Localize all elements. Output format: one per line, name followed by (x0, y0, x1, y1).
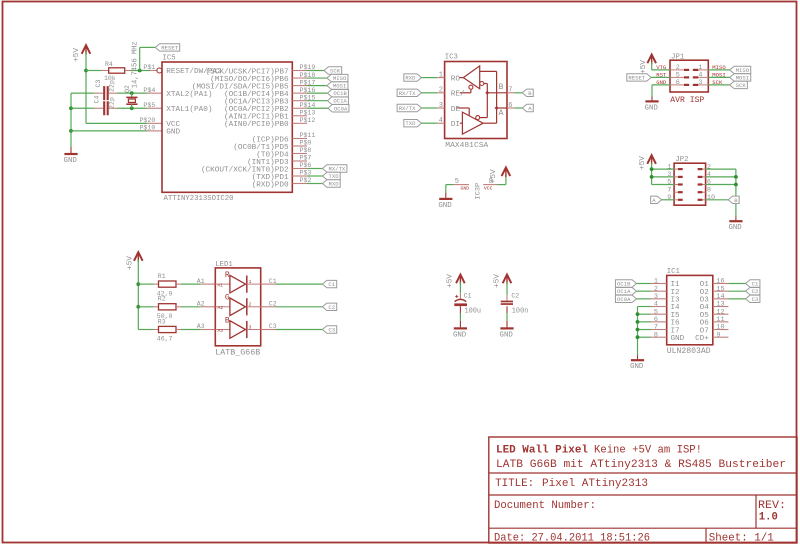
svg-text:R2: R2 (158, 296, 166, 303)
svg-text:MOSI: MOSI (736, 74, 749, 81)
svg-text:GND: GND (645, 104, 659, 112)
svg-text:(RXD)PD0: (RXD)PD0 (252, 181, 289, 189)
svg-text:VCC: VCC (484, 185, 493, 191)
svg-text:RESET: RESET (161, 44, 178, 51)
svg-text:C1: C1 (464, 293, 472, 300)
svg-text:G: G (225, 294, 230, 303)
svg-text:C4: C4 (94, 96, 101, 104)
svg-text:100n: 100n (512, 308, 529, 316)
svg-text:OC1B: OC1B (333, 90, 347, 97)
svg-text:GND: GND (166, 129, 180, 137)
svg-text:Keine +5V am ISP!: Keine +5V am ISP! (594, 444, 702, 456)
svg-text:DI: DI (451, 121, 460, 129)
svg-text:14,7456 MHz: 14,7456 MHz (131, 41, 139, 88)
svg-text:OC1A: OC1A (333, 98, 347, 105)
svg-text:P$11: P$11 (300, 132, 316, 139)
svg-text:C2: C2 (752, 288, 759, 295)
svg-text:LED1: LED1 (215, 261, 233, 269)
svg-text:C3: C3 (752, 296, 759, 303)
svg-text:C1: C1 (328, 281, 335, 288)
svg-text:P$20: P$20 (139, 117, 155, 124)
svg-text:10: 10 (707, 194, 715, 202)
svg-text:SCK: SCK (330, 68, 341, 75)
svg-text:MISO: MISO (333, 75, 347, 82)
svg-text:+5V: +5V (127, 255, 135, 270)
svg-text:IC1: IC1 (667, 268, 681, 276)
svg-text:P$13: P$13 (300, 110, 316, 117)
svg-text:1.0: 1.0 (759, 512, 778, 524)
svg-text:C3: C3 (328, 327, 335, 334)
svg-text:P$4: P$4 (143, 87, 155, 94)
svg-text:IC3: IC3 (445, 54, 458, 62)
svg-text:7: 7 (508, 87, 512, 95)
svg-text:9: 9 (716, 331, 720, 339)
svg-text:GND: GND (728, 224, 742, 232)
svg-text:RX/TX: RX/TX (399, 105, 416, 112)
svg-text:OC1A: OC1A (617, 288, 631, 295)
svg-text:A: A (499, 109, 504, 118)
svg-text:+5V: +5V (73, 47, 81, 62)
svg-text:LED Wall Pixel: LED Wall Pixel (496, 444, 588, 456)
svg-text:A2: A2 (218, 305, 224, 311)
svg-text:OC0A: OC0A (334, 105, 348, 112)
svg-text:JP1: JP1 (671, 53, 685, 61)
svg-text:Document Number:: Document Number: (494, 500, 596, 512)
svg-text:+5V: +5V (640, 59, 648, 74)
svg-text:GND: GND (64, 157, 78, 165)
svg-text:Date: 27.04.2011 18:51:26: Date: 27.04.2011 18:51:26 (494, 533, 650, 545)
svg-text:JP2: JP2 (675, 156, 688, 164)
svg-text:DE: DE (451, 106, 461, 114)
svg-text:ATTINY2313SOIC20: ATTINY2313SOIC20 (164, 195, 234, 203)
svg-text:1: 1 (249, 279, 252, 285)
svg-text:IC5: IC5 (163, 54, 176, 62)
svg-text:RX/TX: RX/TX (329, 166, 346, 173)
svg-text:4: 4 (439, 117, 443, 125)
svg-text:TXD: TXD (329, 173, 340, 180)
svg-text:MAX481CSA: MAX481CSA (445, 142, 488, 150)
svg-text:RO: RO (451, 75, 461, 83)
svg-text:+5V: +5V (447, 273, 455, 288)
svg-text:P$8: P$8 (300, 147, 312, 154)
svg-text:MOSI: MOSI (333, 83, 346, 90)
svg-text:A3: A3 (218, 328, 224, 334)
svg-text:GND: GND (630, 363, 644, 371)
svg-text:Sheet: 1/1: Sheet: 1/1 (709, 533, 774, 545)
svg-text:GND: GND (671, 335, 685, 343)
svg-text:RXD: RXD (405, 75, 416, 82)
svg-text:+5V: +5V (490, 169, 498, 184)
svg-text:TITLE:: TITLE: (495, 478, 534, 490)
svg-text:P$9: P$9 (300, 140, 312, 147)
svg-text:OC0A: OC0A (617, 296, 631, 303)
svg-text:8: 8 (654, 331, 658, 339)
svg-text:Q2: Q2 (124, 85, 131, 93)
svg-text:A2: A2 (197, 301, 205, 308)
svg-text:R4: R4 (105, 61, 113, 68)
svg-text:C2: C2 (511, 293, 519, 300)
svg-text:3: 3 (698, 79, 702, 87)
svg-text:RXD: RXD (329, 181, 340, 188)
svg-text:9: 9 (667, 194, 671, 202)
svg-text:MISO: MISO (736, 67, 750, 74)
svg-text:2: 2 (707, 163, 711, 171)
svg-text:+5V: +5V (639, 155, 647, 170)
svg-text:IC3P: IC3P (474, 183, 482, 200)
svg-text:1: 1 (439, 72, 443, 80)
svg-text:Pixel ATtiny2313: Pixel ATtiny2313 (542, 478, 648, 490)
svg-text:REV:: REV: (758, 500, 786, 512)
svg-text:TXD: TXD (405, 120, 416, 127)
svg-text:6: 6 (676, 79, 680, 87)
svg-text:XTAL1(PA0): XTAL1(PA0) (166, 106, 212, 114)
svg-text:+5V: +5V (494, 273, 502, 288)
svg-text:SCK: SCK (736, 82, 747, 89)
svg-text:GND: GND (453, 331, 467, 339)
svg-text:P$1: P$1 (143, 64, 155, 71)
svg-text:2: 2 (439, 87, 443, 95)
svg-text:1: 1 (667, 163, 671, 171)
svg-text:5: 5 (455, 178, 459, 186)
svg-text:3: 3 (249, 324, 252, 330)
svg-text:3: 3 (439, 102, 443, 110)
svg-text:6: 6 (508, 102, 512, 110)
svg-text:A1: A1 (218, 283, 224, 289)
svg-text:OC1B: OC1B (617, 281, 631, 288)
svg-text:C3: C3 (95, 80, 102, 88)
svg-text:XTAL2(PA1): XTAL2(PA1) (166, 91, 212, 99)
svg-text:22p: 22p (109, 80, 116, 92)
svg-text:22p: 22p (109, 97, 116, 109)
svg-text:A3: A3 (197, 323, 205, 330)
svg-text:C2: C2 (328, 304, 335, 311)
svg-text:P$7: P$7 (300, 155, 312, 162)
svg-text:ULN2803AD: ULN2803AD (667, 347, 711, 356)
svg-text:AVR ISP: AVR ISP (670, 96, 704, 105)
svg-text:P$12: P$12 (300, 117, 316, 124)
svg-text:CD+: CD+ (695, 335, 709, 343)
svg-text:GND: GND (500, 331, 514, 339)
svg-text:R3: R3 (158, 318, 166, 325)
svg-text:GND: GND (438, 202, 452, 210)
svg-text:100u: 100u (465, 308, 482, 316)
svg-text:2: 2 (249, 302, 252, 308)
svg-text:B: B (225, 316, 230, 325)
svg-text:LATB G66B mit ATtiny2313 & RS4: LATB G66B mit ATtiny2313 & RS485 Bustrei… (496, 459, 786, 471)
svg-text:P$10: P$10 (139, 125, 155, 132)
svg-text:B: B (499, 83, 504, 92)
svg-text:P$5: P$5 (143, 102, 155, 109)
svg-text:GND: GND (461, 185, 470, 191)
svg-text:(AIN0/PCI0)PB0: (AIN0/PCI0)PB0 (224, 121, 289, 129)
svg-text:46,7: 46,7 (157, 336, 173, 343)
svg-text:RX/TX: RX/TX (399, 90, 416, 97)
svg-text:LATB_G66B: LATB_G66B (215, 349, 260, 358)
svg-text:RE/: RE/ (451, 91, 465, 99)
svg-text:C1: C1 (752, 281, 759, 288)
svg-text:R1: R1 (158, 273, 166, 280)
svg-text:RESET: RESET (628, 74, 645, 81)
svg-text:R: R (225, 271, 230, 280)
svg-text:A1: A1 (197, 278, 205, 285)
